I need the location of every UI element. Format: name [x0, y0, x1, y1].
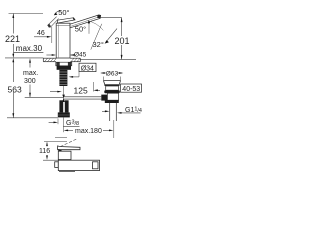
angle 32 leader B with arrow: [106, 29, 117, 42]
dimension 125 right terminator: [92, 82, 94, 92]
top reference line (spout tip to 201): [100, 16, 122, 18]
deck right hatching: [71, 58, 80, 61]
svg-text:221: 221: [5, 34, 20, 44]
diameter 63 extent ticks: [103, 77, 105, 81]
svg-text:Ø45: Ø45: [74, 51, 87, 58]
junction diamond on centerline: [62, 95, 65, 99]
deck level extension line right: [80, 59, 136, 61]
G3/8 arrow: [49, 121, 55, 123]
faucet centerline below shank: [63, 86, 65, 100]
angle leader line vertical: [88, 22, 90, 34]
arrow 201 bottom: [121, 55, 123, 60]
lever swung dashed position: [48, 17, 59, 28]
svg-text:max.: max.: [23, 70, 38, 77]
deck left section: [43, 58, 56, 62]
rod level reference line: [25, 97, 63, 99]
dimension diameter 63: [102, 72, 107, 74]
dimension arrows diameter 45: [46, 54, 52, 56]
svg-text:201: 201: [115, 36, 130, 46]
svg-text:Ø34: Ø34: [81, 65, 94, 72]
dimension 116: [46, 142, 48, 147]
faucet centerline extension bottom: [63, 118, 65, 133]
svg-text:32°: 32°: [93, 40, 104, 49]
arrow 221 top: [12, 14, 14, 19]
spout outlet window: [93, 162, 99, 169]
mounting nut: [57, 66, 71, 70]
spout bar bottom view: [58, 160, 99, 170]
mounting washer: [56, 62, 72, 66]
dimension 221 line: [12, 14, 14, 34]
svg-text:563: 563: [8, 85, 22, 95]
flexible hoses: [59, 100, 63, 112]
svg-text:116: 116: [39, 148, 50, 155]
svg-text:50°: 50°: [58, 8, 69, 17]
waste cap underline seal: [105, 85, 120, 86]
deck right section: [70, 58, 80, 62]
svg-text:Ø63: Ø63: [106, 71, 119, 78]
top reference line (spout top level, left): [9, 13, 44, 15]
dimension max300 line: [29, 62, 31, 68]
spout blade: [70, 15, 101, 28]
faucet body: [56, 23, 70, 58]
waste locknut band: [105, 100, 119, 103]
svg-text:40-53: 40-53: [122, 86, 140, 93]
arrow 563 bottom: [12, 113, 14, 118]
dimension 201 line: [121, 18, 123, 36]
body bottom view: [58, 151, 71, 159]
G1 1/4 arrows: [102, 110, 106, 112]
dimension 563 line: [12, 62, 14, 82]
svg-text:max.180: max.180: [75, 128, 102, 135]
svg-text:300: 300: [24, 78, 36, 85]
arrow diamond at deck (221/563): [12, 54, 14, 58]
waste seal band: [104, 90, 120, 93]
lever blade: [58, 18, 76, 23]
boxed label 40-53: [121, 84, 142, 92]
svg-text:50°: 50°: [75, 24, 86, 33]
body collar line: [56, 25, 70, 27]
arrow max300 bottom: [29, 93, 31, 98]
body inner edge: [57, 25, 59, 59]
deck left hatching: [45, 58, 57, 61]
drain centerline extension: [113, 120, 115, 138]
top reference line bottom view: [44, 141, 67, 143]
deck level extension line left: [5, 57, 43, 59]
boxed label diameter 34: [79, 63, 96, 71]
leader for diameter 34: [78, 72, 80, 77]
arc 50deg upper: [54, 11, 60, 15]
waste cap: [104, 81, 121, 85]
stub handle end: [55, 162, 59, 168]
dimension 125 arrow left: [50, 91, 58, 93]
arrow max300 top: [29, 58, 31, 63]
spout bar shadow: [59, 170, 75, 172]
threaded shank: [59, 70, 67, 86]
svg-text:125: 125: [74, 85, 88, 95]
rod nut at waste: [101, 95, 107, 101]
svg-text:46: 46: [37, 30, 45, 37]
hose nut: [58, 112, 70, 117]
dashed lever position: [60, 139, 76, 146]
waste body: [107, 93, 118, 100]
bottom reference line bottom view: [43, 159, 58, 161]
lever blade bottom view: [58, 146, 80, 150]
shank thread lines: [60, 72, 68, 84]
spout tip face: [97, 15, 101, 18]
waste tailpipe: [109, 103, 111, 121]
arrow 201 top: [121, 18, 123, 23]
G3/8 extension tick: [57, 119, 59, 125]
waste neck: [106, 86, 119, 90]
spout inner line: [71, 17, 99, 26]
svg-text:max.30: max.30: [16, 44, 43, 53]
hose end reference line: [7, 117, 58, 119]
arc 50deg lower: [87, 21, 104, 31]
lever tip face: [73, 18, 76, 21]
pop-up rod horizontal: [64, 96, 102, 98]
angle 32 leader A: [91, 24, 102, 50]
short reference line: [55, 137, 67, 139]
lever pivot dark cap: [58, 150, 63, 156]
dimension max.180: [67, 129, 73, 131]
